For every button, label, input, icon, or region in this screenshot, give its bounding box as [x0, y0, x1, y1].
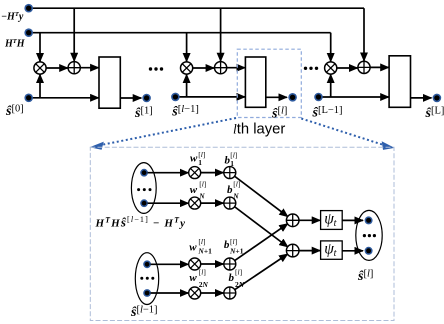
zoom connector right (blue dotted with arrowhead): [301, 119, 394, 150]
svg-text:[l]: [l]: [198, 237, 205, 246]
node: s[0] terminal: [24, 94, 33, 103]
adder BN1: [224, 258, 236, 270]
wire: s[L-1] to layer block 3: [319, 96, 389, 98]
node: xN+1: [143, 260, 151, 268]
wire: s[l-1] to layer block 2: [175, 96, 245, 98]
svg-text:ŝ[L]: ŝ[L]: [425, 106, 444, 122]
svg-text:w: w: [190, 184, 198, 196]
ellipsis dots inside output ellipse: [363, 234, 376, 237]
svg-text:w: w: [190, 153, 198, 165]
wire: branch up into multiplier M1: [39, 74, 41, 97]
label: wN[l]: [190, 179, 207, 200]
ellipsis dots inside ellipse 2: [140, 277, 154, 280]
adder B1: [224, 167, 236, 179]
wire: branch up into multiplier M2: [186, 74, 188, 97]
svg-text:t: t: [334, 218, 337, 229]
layer block 2: [245, 57, 265, 107]
wire: x1 to W1: [148, 172, 189, 174]
label: b2N[l]: [229, 268, 245, 290]
activation box PSI2: [321, 241, 343, 260]
svg-text:b: b: [224, 239, 230, 251]
multiplier W2N: [189, 287, 201, 299]
svg-text:N+1: N+1: [197, 246, 212, 255]
multiplier W1: [189, 167, 201, 179]
wire: M1 to A1: [46, 67, 68, 69]
node: x1: [140, 169, 148, 177]
adder A1: [68, 62, 80, 74]
wire: layer 1 output to s[1]: [120, 97, 141, 99]
svg-text:ŝ[l]: ŝ[l]: [271, 106, 287, 122]
wire: WN to BN: [201, 202, 224, 204]
svg-text:w: w: [189, 241, 197, 253]
wire: branch up into multiplier M3: [330, 74, 332, 97]
zoom connector left (blue dotted with arrowhead): [90, 118, 236, 150]
svg-text:w: w: [189, 272, 197, 284]
wire: layer 2 output to s[l]: [266, 96, 287, 98]
wire: -HTy drop to adder A1: [73, 8, 75, 61]
svg-text:t: t: [334, 248, 337, 259]
wire: W1 to B1: [201, 172, 224, 174]
wire: -HTy drop to adder A2: [220, 8, 222, 61]
node: s[l-1] terminal: [171, 93, 180, 102]
node: -HTy input terminal: [24, 4, 33, 13]
activation box PSI1: [321, 211, 343, 230]
node: out2: [365, 247, 373, 255]
svg-text:[l]: [l]: [235, 268, 242, 277]
svg-text:N: N: [232, 191, 239, 200]
node: out1: [365, 216, 373, 224]
node: s[L-1] terminal: [314, 93, 323, 102]
svg-text:ŝ[l−1]: ŝ[l−1]: [171, 104, 199, 120]
adder BN: [224, 197, 236, 209]
wire: A3 to layer block 3: [370, 66, 389, 68]
wire: B2N to sum S2 (diagonal): [235, 254, 288, 290]
output ellipse group: [356, 210, 382, 260]
svg-text:[l]: [l]: [230, 237, 237, 246]
svg-text:ŝ[l−1]: ŝ[l−1]: [130, 304, 158, 320]
svg-text:b: b: [227, 184, 233, 196]
wire: BN to sum S2 (diagonal): [234, 207, 288, 248]
svg-text:N+1: N+1: [229, 246, 244, 255]
wire: PSI1 to output node 1: [342, 219, 363, 221]
ellipsis dots upper row right: [304, 67, 318, 70]
svg-text:[l]: [l]: [199, 179, 206, 188]
adder A2: [215, 62, 227, 74]
wire: HTH drop to multiplier M3: [330, 33, 332, 62]
adder A3: [358, 61, 370, 73]
svg-text:1: 1: [230, 159, 234, 168]
wire: PSI2 to output node 2: [342, 250, 363, 252]
wire: -HTy horizontal bus: [29, 7, 364, 9]
label: bN+1[l]: [224, 237, 244, 255]
wire: A1 to layer block 1: [81, 67, 99, 69]
multiplier M1: [34, 62, 46, 74]
input ellipse group 2: [135, 253, 158, 305]
wire: HTH drop to multiplier M1: [39, 33, 41, 62]
big dashed zoom box: [90, 147, 394, 320]
wire: xN to WN: [148, 202, 189, 204]
node: xN: [140, 199, 148, 207]
wire: W2N to B2N: [201, 292, 224, 294]
ellipsis dots inside ellipse 1: [137, 188, 151, 191]
wire: S2 to activation box 2: [299, 250, 320, 252]
dashed box around layer block 2: [237, 49, 301, 117]
wire: xN+1 to WN1: [151, 263, 189, 265]
wire: S1 to activation box 1: [299, 219, 320, 221]
wire: HTH horizontal bus: [29, 32, 331, 34]
svg-text:b: b: [229, 272, 235, 284]
node: s[1] terminal: [142, 94, 151, 103]
svg-text:ŝ[L−1]: ŝ[L−1]: [312, 105, 343, 121]
node: s[l] terminal: [288, 93, 297, 102]
svg-text:2N: 2N: [199, 280, 209, 289]
svg-text:1: 1: [198, 158, 202, 167]
svg-text:ŝ[l]: ŝ[l]: [357, 268, 373, 284]
wire: BN1 to sum S1 (diagonal): [235, 224, 288, 261]
ellipsis dots upper row left: [149, 67, 163, 70]
multiplier WN1: [189, 258, 201, 270]
multiplier WN: [189, 197, 201, 209]
layer block 3: [389, 56, 410, 108]
svg-text:lth layer: lth layer: [233, 122, 285, 138]
wire: s[0] to layer block 1: [29, 97, 99, 99]
svg-text:−HTy: −HTy: [1, 11, 24, 23]
input ellipse group 1: [131, 163, 156, 214]
wire: A2 to layer block 2: [227, 67, 245, 69]
label: wN+1[l]: [189, 237, 212, 255]
node: HTH input terminal: [24, 28, 33, 37]
node: x2N: [143, 289, 151, 297]
label: w1[l]: [190, 150, 205, 167]
adder B2N: [224, 287, 236, 299]
wire: M2 to A2: [193, 67, 214, 69]
wire: layer 3 output to s[L]: [411, 97, 432, 99]
svg-text:ŝ[1]: ŝ[1]: [134, 105, 153, 121]
multiplier M2: [181, 62, 193, 74]
wire: x2N to W2N: [151, 292, 189, 294]
adder S1: [286, 214, 299, 227]
label: b1[l]: [225, 151, 238, 169]
node: s[L] terminal: [433, 94, 442, 103]
svg-text:ŝ[0]: ŝ[0]: [5, 103, 24, 119]
label: w2N[l]: [189, 268, 208, 290]
wire: -HTy drop to adder A3: [363, 8, 365, 61]
wire: WN1 to BN1: [201, 263, 224, 265]
multiplier M3: [325, 62, 337, 74]
svg-text:HTH: HTH: [4, 38, 26, 50]
svg-text:HTHŝ[l−1] − HTy: HTHŝ[l−1] − HTy: [95, 215, 187, 230]
layer block 1: [99, 57, 120, 108]
adder S2: [286, 244, 299, 257]
wire: B1 to sum S1 (diagonal): [234, 176, 288, 217]
wire: HTH drop to multiplier M2: [186, 33, 188, 62]
svg-text:[l]: [l]: [199, 268, 206, 277]
svg-text:N: N: [198, 191, 205, 200]
wire: M3 to A3: [337, 67, 358, 69]
label: bN[l]: [227, 179, 240, 200]
